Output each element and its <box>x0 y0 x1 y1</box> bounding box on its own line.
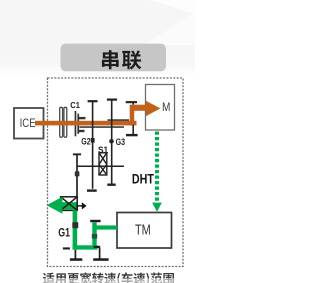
green drive: right vertical <box>92 222 96 249</box>
dashed container box <box>48 78 184 267</box>
green down arrowhead into TM <box>152 203 162 212</box>
gear shaft V1 (G2 gear) <box>92 102 94 189</box>
black axle gear left <box>74 250 76 259</box>
svg-text:G1: G1 <box>58 225 70 239</box>
svg-text:G3: G3 <box>116 137 125 147</box>
orange arrowhead into M <box>146 101 161 117</box>
bottom caption text (clipped) <box>43 272 174 283</box>
synchronizer S1 <box>99 153 107 175</box>
svg-text:S1: S1 <box>98 145 108 155</box>
black gear T on green top <box>90 220 100 222</box>
svg-text:TM: TM <box>135 222 151 238</box>
left vertical shaft to diff <box>76 155 78 198</box>
gear shaft V2 (G3 gear) <box>111 100 113 184</box>
svg-text:G2: G2 <box>81 137 90 147</box>
small black arrow right of diff <box>77 205 82 207</box>
orange power flow: main band ICE to gear <box>35 121 137 126</box>
green dotted electric link M to TM <box>155 132 159 203</box>
green band through differential <box>60 202 78 209</box>
big green output arrow <box>47 197 63 214</box>
bead coupler on left shaft <box>75 171 80 176</box>
axle stub left of diff output <box>63 247 70 249</box>
input shaft thin line upper <box>108 119 130 121</box>
countershaft <box>77 165 124 167</box>
differential box <box>61 197 78 211</box>
gear shaft V3 (to M) <box>126 101 137 103</box>
ICE box <box>14 108 44 139</box>
green drive: middle horizontal to TM <box>94 225 117 229</box>
TM box (traction motor) <box>117 213 172 249</box>
caption bottom fade <box>25 278 185 283</box>
clutch C1 plates <box>75 111 77 136</box>
svg-text:ICE: ICE <box>20 116 36 130</box>
gear V1 bottom pinion <box>87 189 97 191</box>
damper (flywheel) <box>60 107 63 137</box>
green drive: left vertical <box>73 210 78 250</box>
mode label text 串联 <box>102 50 119 69</box>
gear V2 bottom pinion <box>107 184 115 186</box>
black bead on green (G1) <box>72 222 78 228</box>
green drive: bottom horizontal <box>73 245 98 249</box>
svg-text:DHT: DHT <box>132 170 154 186</box>
M box (generator) <box>146 85 175 131</box>
mode button <box>61 44 167 72</box>
dark green bead on right vertical <box>92 234 97 239</box>
orange power flow: vertical riser <box>130 105 135 126</box>
input shaft thin line lower <box>80 126 125 128</box>
orange power flow: upper band to M <box>132 105 147 111</box>
black axle gear right <box>94 246 101 248</box>
svg-text:M: M <box>162 100 170 114</box>
svg-text:C1: C1 <box>70 101 80 110</box>
